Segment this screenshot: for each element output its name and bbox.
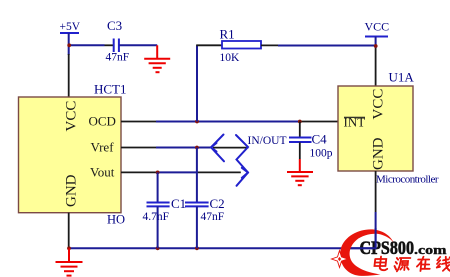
pin HCT1 GND stub bbox=[68, 213, 70, 249]
wire rail overdraw bbox=[350, 247, 377, 249]
junction Vref/C2 bbox=[195, 146, 199, 150]
svg-text:GND: GND bbox=[64, 174, 80, 207]
capacitor C3 bbox=[106, 18, 130, 64]
svg-text:+5V: +5V bbox=[60, 21, 81, 33]
IC U1A body bbox=[338, 86, 413, 171]
power +5V label bbox=[60, 21, 81, 33]
capacitor C2 bbox=[185, 148, 225, 249]
svg-text:HCT1: HCT1 bbox=[94, 82, 127, 97]
svg-text:.com: .com bbox=[414, 243, 447, 257]
line Vout black segment bbox=[197, 171, 241, 173]
svg-text:GND: GND bbox=[371, 137, 387, 170]
svg-text:VCC: VCC bbox=[365, 20, 390, 34]
capacitor C1 bbox=[143, 172, 187, 248]
svg-text:Microcontroller: Microcontroller bbox=[376, 173, 439, 185]
svg-text:VCC: VCC bbox=[371, 89, 387, 120]
svg-text:IN/OUT: IN/OUT bbox=[248, 135, 287, 147]
pin U1A VCC stub bbox=[375, 48, 377, 86]
logo white star bbox=[332, 251, 348, 268]
junction rail/C1 bbox=[156, 246, 160, 250]
char 电 bbox=[374, 257, 388, 271]
junction OCD/C4 bbox=[298, 120, 302, 124]
wire C3 left pin bbox=[105, 44, 114, 46]
ground (C3) bbox=[144, 45, 170, 72]
svg-text:C4: C4 bbox=[312, 132, 328, 147]
wire HCT1 VCC pin bbox=[68, 54, 70, 97]
arrow OUT (zigzag right pointing) bbox=[236, 135, 248, 186]
pin Vout stub bbox=[121, 171, 158, 173]
svg-text:C1: C1 bbox=[171, 196, 186, 211]
logo red C swoosh bbox=[340, 229, 393, 276]
wire U1A GND down bbox=[375, 212, 377, 248]
svg-text:C2: C2 bbox=[210, 196, 225, 211]
wire +5V stub down bbox=[68, 33, 70, 55]
svg-text:R1: R1 bbox=[220, 27, 235, 42]
IC HCT1 body bbox=[19, 97, 122, 213]
wire C3 right to ground bbox=[120, 44, 158, 46]
arrow IN (left pointing) bbox=[211, 135, 224, 162]
pin INT stub bbox=[300, 121, 338, 123]
char 源 bbox=[394, 258, 410, 271]
pin OCD stub bbox=[121, 121, 156, 123]
wire +5V to C3 bbox=[69, 44, 105, 46]
wire Vref to arrow bbox=[156, 147, 211, 149]
svg-text:VCC: VCC bbox=[64, 101, 80, 132]
junction +5V node bbox=[67, 43, 71, 47]
svg-text:4.7nF: 4.7nF bbox=[143, 211, 170, 223]
logo chinese 电源在线 (drawn) bbox=[374, 257, 450, 272]
junction OCD/R1 bbox=[195, 120, 199, 124]
resistor R1 bbox=[220, 27, 262, 65]
line R1 left black bbox=[196, 44, 222, 46]
logo CPS800.com bbox=[332, 228, 448, 276]
junction rail/HCT1 GND bbox=[67, 246, 71, 250]
svg-text:HO: HO bbox=[107, 213, 125, 227]
pin U1A GND stub bbox=[375, 171, 377, 212]
ground (bottom left) bbox=[56, 248, 83, 275]
svg-text:U1A: U1A bbox=[389, 70, 415, 85]
power +5V bar symbol bbox=[60, 32, 79, 34]
line arrow shaft black bbox=[213, 147, 248, 149]
char 在 bbox=[416, 257, 430, 271]
svg-text:Vref: Vref bbox=[91, 140, 115, 155]
wire VCC stub bbox=[375, 37, 377, 49]
wire Vout to C1 bbox=[158, 171, 197, 173]
svg-text:47nF: 47nF bbox=[106, 52, 130, 64]
svg-text:C3: C3 bbox=[107, 18, 122, 33]
wire R1 vertical bbox=[196, 45, 198, 121]
pin name INT (overbar) bbox=[344, 115, 366, 130]
wire R1 to VCC bbox=[278, 45, 376, 47]
wire gnd overdraw bbox=[375, 228, 377, 248]
wire ground rail bbox=[69, 247, 377, 249]
wire OCD to INT bbox=[156, 121, 300, 123]
ground (C4) bbox=[287, 159, 313, 185]
junction rail/C2 bbox=[195, 246, 199, 250]
logo star center dot bbox=[338, 257, 341, 261]
svg-text:Vout: Vout bbox=[90, 165, 115, 180]
junction VCC node bbox=[374, 44, 378, 48]
svg-text:47nF: 47nF bbox=[201, 211, 225, 223]
power VCC bar bbox=[365, 36, 388, 38]
svg-text:100p: 100p bbox=[310, 148, 333, 160]
pin Vref stub bbox=[121, 147, 156, 149]
svg-text:10K: 10K bbox=[220, 52, 241, 64]
svg-text:OCD: OCD bbox=[89, 114, 116, 129]
line R1 right black bbox=[261, 44, 278, 46]
junction Vout/C1 bbox=[156, 171, 160, 175]
char 线 bbox=[436, 257, 450, 271]
capacitor C4 bbox=[289, 122, 333, 160]
